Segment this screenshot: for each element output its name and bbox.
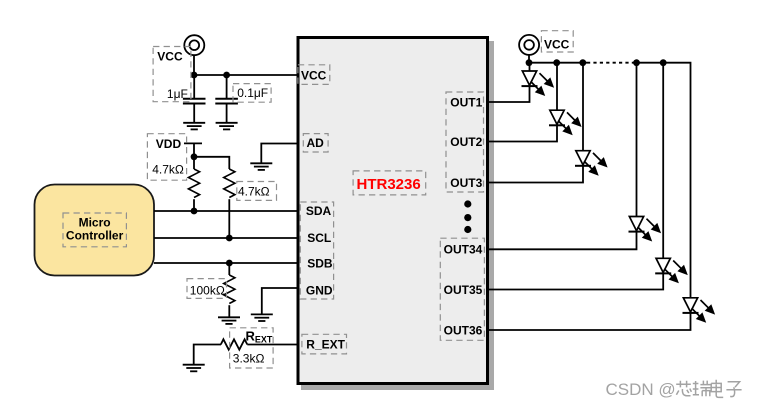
svg-text:SCL: SCL	[307, 231, 331, 245]
svg-text:VCC: VCC	[301, 68, 327, 82]
svg-text:100kΩ: 100kΩ	[190, 283, 225, 297]
svg-text:HTR3236: HTR3236	[357, 176, 421, 193]
svg-text:1μF: 1μF	[167, 87, 188, 101]
svg-text:3.3kΩ: 3.3kΩ	[233, 352, 265, 366]
svg-text:AD: AD	[307, 136, 325, 150]
svg-text:VCC: VCC	[544, 38, 570, 52]
svg-text:4.7kΩ: 4.7kΩ	[152, 163, 184, 177]
svg-text:SDA: SDA	[306, 204, 332, 218]
svg-text:Controller: Controller	[66, 228, 124, 242]
svg-text:OUT36: OUT36	[444, 323, 483, 337]
svg-text:CSDN @: CSDN @	[606, 380, 676, 399]
svg-text:OUT35: OUT35	[444, 283, 483, 297]
svg-text:R_EXT: R_EXT	[306, 338, 345, 352]
svg-text:OUT2: OUT2	[450, 135, 482, 149]
svg-text:VDD: VDD	[156, 137, 182, 151]
svg-text:OUT1: OUT1	[450, 95, 482, 109]
svg-text:OUT34: OUT34	[444, 243, 483, 257]
svg-text:0.1μF: 0.1μF	[237, 86, 268, 100]
svg-text:VCC: VCC	[157, 50, 183, 64]
svg-text:4.7kΩ: 4.7kΩ	[238, 185, 270, 199]
svg-text:GND: GND	[306, 284, 333, 298]
svg-text:OUT3: OUT3	[450, 176, 482, 190]
svg-text:SDB: SDB	[307, 257, 333, 271]
